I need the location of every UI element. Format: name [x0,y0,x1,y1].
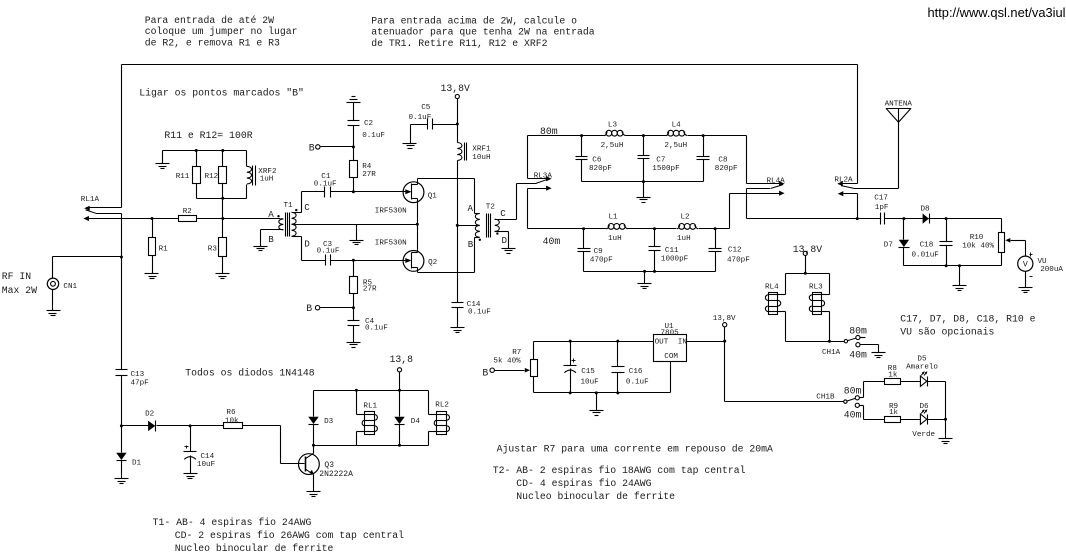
junction Q1 Q2 sources [416,223,419,226]
node 13,8V U1 [713,315,736,342]
capacitor C14 electrolytic [184,426,216,474]
capacitor C13 [116,257,150,426]
node 13.8V drain supply [441,83,471,125]
note: ajustar R7 [497,443,773,454]
svg-text:10uF: 10uF [581,379,600,387]
junction 80m ground [642,180,645,183]
ground R1 [145,274,159,279]
svg-text:D5: D5 [917,355,927,363]
wire D2 to R6 [191,425,224,427]
node B terminal 2 [306,303,353,314]
junction C14 node [189,424,192,427]
diode D7 [884,219,910,266]
wire 40m to RL4A [729,194,731,229]
capacitor C8 [697,136,739,182]
relay coil RL2 [429,391,450,446]
junction RL3 bottom [828,340,831,343]
capacitor C4 [348,318,389,343]
wire Q2 source to T2 B [418,238,475,273]
capacitor C18 [912,219,953,266]
transistor Q3 [299,446,354,492]
node B terminal 1 [309,142,354,153]
svg-text:B: B [306,303,312,314]
wire bias bottom rail [534,393,671,411]
svg-text:B: B [309,142,315,153]
junction C15 bottom [569,391,572,394]
svg-text:2,5uH: 2,5uH [601,142,624,150]
svg-text:R3: R3 [208,246,218,254]
potentiometer R7 [493,342,537,393]
svg-text:D4: D4 [411,418,421,426]
capacitor C11 [649,229,689,272]
svg-text:13,8V: 13,8V [441,83,471,94]
svg-text:C15: C15 [581,368,595,376]
relay contact RL4A [730,177,786,195]
capacitor C14b [452,301,492,328]
junction CN1 node [120,256,123,259]
wire 13.8V rail down [457,161,459,303]
svg-text:D8: D8 [921,206,931,214]
capacitor C3 [317,241,340,265]
transistor Q2 [375,239,438,271]
resistor R11 [176,151,201,199]
node RF IN label [2,271,37,296]
capacitor C7 [638,136,681,182]
resistor R2 [179,208,197,222]
svg-text:200uA: 200uA [1040,266,1063,274]
ground 80m filter [637,198,651,203]
junction C18 top [945,217,948,220]
svg-text:D1: D1 [132,460,142,468]
junction bias gnd [595,391,598,394]
svg-text:1uH: 1uH [677,235,691,243]
junction relays 13.8 [804,272,807,275]
junction C6 top [580,134,583,137]
relay coil RL3 [809,274,830,342]
wire relay top [314,390,429,392]
svg-text:L2: L2 [681,213,691,221]
note: T1 winding [153,517,405,554]
svg-text:C14: C14 [201,453,215,461]
svg-text:XRF1: XRF1 [472,146,491,154]
svg-text:R1: R1 [159,246,169,254]
junction U1 IN node [723,340,726,343]
junction B node C2 [352,145,355,148]
wire T1 D to C3 [302,237,326,261]
resistor R1 [149,219,169,274]
svg-text:Max 2W: Max 2W [2,285,37,296]
svg-text:VU são opcionais: VU são opcionais [900,327,994,338]
junction meter ground [958,264,961,267]
junction C12 top [714,227,717,230]
transformer T2 [468,203,517,250]
wire C3 to Q2 gate [331,260,406,262]
svg-text:Para entrada de até 2W: Para entrada de até 2W [145,15,274,26]
svg-text:CN1: CN1 [63,283,77,291]
junction C11 top [653,227,656,230]
wire R11 net top [163,151,247,164]
svg-text:B: B [482,368,488,379]
junction led gnd [944,418,947,421]
svg-text:Ligar os pontos marcados "B": Ligar os pontos marcados "B" [139,87,304,98]
wire meter bottom [904,266,1002,286]
svg-text:D: D [304,238,310,249]
ground R3 [216,274,230,279]
capacitor C16 [612,342,650,393]
wire 80m filter top [528,135,747,137]
svg-text:13,8: 13,8 [390,354,414,365]
note: ligar pontos B [139,87,304,98]
wire RL3A to 80m [527,136,529,179]
ground CN1 [47,311,61,316]
ground R11 net [156,164,170,169]
svg-text:CH1A: CH1A [822,349,841,357]
svg-text:RL3: RL3 [809,284,823,292]
ground meter [953,286,967,291]
node 80m label [540,126,558,137]
svg-text:1uH: 1uH [608,235,622,243]
meter VU [1018,241,1064,288]
svg-text:CH1B: CH1B [816,394,835,402]
note: optional parts [900,313,1035,337]
svg-text:CD- 2 espiras fio 26AWG com ta: CD- 2 espiras fio 26AWG com tap central [175,530,404,541]
note: jumper instructions [145,15,298,49]
inductor L3 [601,122,626,150]
resistor R9 [885,403,921,422]
svg-text:RL4: RL4 [765,284,779,292]
svg-text:R12: R12 [205,173,219,181]
svg-text:80m: 80m [844,385,862,396]
svg-text:13,8V: 13,8V [713,315,736,323]
resistor R12 [205,151,227,199]
ground C14 [184,474,198,479]
svg-text:27R: 27R [363,286,377,294]
svg-text:http://www.qsl.net/va3iul: http://www.qsl.net/va3iul [928,5,1066,20]
diode D1 [116,426,141,479]
transistor Q1 [375,182,437,216]
svg-text:Verde: Verde [912,431,935,439]
svg-text:C7: C7 [656,156,665,164]
junction C16 top [616,340,619,343]
svg-text:CD- 4 espiras fio 24AWG: CD- 4 espiras fio 24AWG [516,478,651,489]
svg-text:C9: C9 [594,248,604,256]
svg-text:R7: R7 [512,349,521,357]
ground T2 D [502,249,516,254]
svg-text:RL4A: RL4A [767,177,786,185]
capacitor C6 [576,136,613,182]
svg-text:D7: D7 [884,241,893,249]
diode D2 [122,410,191,431]
switch CH1A [822,325,879,360]
transformer T1 [261,202,311,250]
svg-text:820pF: 820pF [715,165,738,173]
wire T1 C to C1 [302,192,325,213]
ground center tap [350,241,364,245]
svg-text:470pF: 470pF [727,256,750,264]
ground T1 B [254,247,268,251]
junction C15 top [569,340,572,343]
svg-text:A: A [268,209,274,220]
wire RL4A pole to output [747,189,858,219]
svg-text:1pF: 1pF [875,204,889,212]
junction RL2A output [856,217,859,220]
wire 80m to RL4A [746,136,748,184]
svg-text:C18: C18 [920,241,934,249]
svg-text:R10: R10 [970,234,984,242]
diode D3 [308,391,333,446]
svg-text:de R2, e remova R1 e R3: de R2, e remova R1 e R3 [145,37,280,48]
wire R6 to Q3 base [281,426,305,464]
svg-text:40m: 40m [849,349,867,360]
svg-text:COM: COM [664,353,678,361]
switch CH1B [816,382,884,421]
diode D4 [394,391,420,446]
svg-text:RF IN: RF IN [2,271,32,282]
svg-text:40m: 40m [844,409,862,420]
relay coil RL4 [765,274,786,342]
svg-text:C6: C6 [592,156,602,164]
svg-text:C8: C8 [718,156,728,164]
wire coils to CH1A [786,341,845,343]
ground CH1A [872,353,886,358]
svg-text:0.1uF: 0.1uF [362,132,385,140]
wire relay coils top [786,273,830,275]
note: url [928,5,1066,20]
ground bias [590,411,604,416]
svg-text:R2: R2 [183,208,193,216]
relay contact RL3A [517,173,553,220]
wire T2 center tap [458,225,480,227]
svg-text:470pF: 470pF [590,257,613,265]
wire Q1 source [417,199,419,225]
svg-text:C13: C13 [131,371,145,379]
svg-text:0.1uF: 0.1uF [626,379,649,387]
junction D7 node [902,217,905,220]
wire U1 COM [670,362,672,393]
wire C2 to R4 [353,126,355,161]
potentiometer R10 [962,233,1025,266]
svg-text:Nucleo binocular de ferrite: Nucleo binocular de ferrite [516,491,675,502]
svg-text:coloque um jumper no lugar: coloque um jumper no lugar [145,26,298,37]
ground D1 [115,479,129,484]
svg-text:Q3: Q3 [324,461,334,470]
svg-text:T2: T2 [486,203,496,211]
svg-text:Ajustar R7 para uma corrente e: Ajustar R7 para uma corrente em repouso … [497,443,773,454]
junction C13 bottom [120,424,123,427]
svg-text:Nucleo binocular de ferrite: Nucleo binocular de ferrite [175,543,334,554]
svg-text:RL1: RL1 [363,402,377,410]
note: attenuator instructions [371,15,595,49]
node B terminal 3 [482,368,494,379]
wire RL3A to 40m [527,189,529,229]
junction gate Q1 node [352,190,355,193]
svg-text:T2- AB- 2 espiras fio 18AWG co: T2- AB- 2 espiras fio 18AWG com tap cent… [493,465,746,476]
junction C7 top [642,134,645,137]
inductor L4 [664,122,687,150]
node 13,8 relay supply [390,354,414,390]
svg-text:820pF: 820pF [589,165,612,173]
svg-text:RL2: RL2 [435,402,449,410]
svg-text:C12: C12 [728,247,742,255]
wire to CH1B [725,342,844,402]
ground C5 [403,144,417,149]
note: T2 winding [493,465,746,502]
wire RL2A throw2 down [857,194,859,219]
wire T1 center tap [296,225,418,241]
svg-text:T1: T1 [284,202,294,210]
node 40m label [543,236,561,247]
junction XRF1 top [456,123,459,126]
junction gate Q2 node [352,259,355,262]
capacitor C15 electrolytic [564,342,600,393]
ground leds [939,439,953,444]
wire Q1 drain to T2 A [418,179,475,214]
svg-text:C: C [304,202,310,213]
junction R12 bottom [221,197,224,200]
svg-text:0.1uF: 0.1uF [365,324,388,332]
svg-text:10k: 10k [225,418,239,426]
inductor XRF1 [457,125,491,163]
inductor L1 [607,213,628,243]
svg-text:Amarelo: Amarelo [906,364,938,372]
note: todos os diodos [185,368,314,379]
svg-text:Q2: Q2 [428,259,438,267]
wire D6 to gnd [928,420,946,439]
junction C11 bottom [653,270,656,273]
junction C18 bottom [945,264,948,267]
capacitor C1 [314,173,337,198]
svg-text:0.1uF: 0.1uF [468,309,491,317]
inductor XRF2 [247,151,277,199]
wire 80m filter bottom [582,182,704,198]
svg-text:5k 40%: 5k 40% [493,358,521,366]
svg-text:40m: 40m [543,236,561,247]
capacitor C5 [409,104,458,144]
svg-text:C2: C2 [364,120,374,128]
resistor R4 [350,161,377,192]
svg-text:R4: R4 [362,163,372,171]
svg-text:R6: R6 [226,409,236,417]
junction B node R5 [352,306,355,309]
wire C1 to Q1 gate [331,191,406,193]
relay contact RL1A [81,196,122,221]
relay coil RL1 [357,391,378,446]
svg-text:0.1uF: 0.1uF [317,247,340,255]
svg-text:0.1uF: 0.1uF [409,114,432,122]
svg-text:1k: 1k [888,372,898,380]
resistor R5 [350,261,378,321]
resistor R8 [885,365,921,384]
svg-text:B: B [468,239,474,250]
junction C9 top [582,227,585,230]
wire 40m filter bottom [584,272,716,284]
wire R11 net bottom [197,199,247,219]
svg-text:27R: 27R [362,171,376,179]
svg-text:C: C [500,208,506,219]
svg-text:T1- AB- 4 espiras fio 24AWG: T1- AB- 4 espiras fio 24AWG [153,517,312,528]
svg-text:2,5uH: 2,5uH [664,142,687,150]
svg-text:2N2222A: 2N2222A [319,470,353,479]
ground C14b [451,328,465,333]
junction D4 bottom [398,444,401,447]
junction 40m ground [643,270,646,273]
wire top bypass rail [122,65,858,208]
svg-text:C16: C16 [629,368,643,376]
junction R3 node [221,217,224,220]
inductor L2 [677,213,698,243]
svg-text:Todos os diodos 1N4148: Todos os diodos 1N4148 [185,368,314,379]
svg-text:IRF530N: IRF530N [375,239,407,247]
svg-text:RL2A: RL2A [834,176,853,184]
ground C4 [347,343,361,348]
svg-text:RL1A: RL1A [81,196,100,204]
svg-text:R11 e R12= 100R: R11 e R12= 100R [164,130,252,141]
capacitor C2 [348,103,386,141]
svg-text:D: D [502,235,508,246]
led D5 [906,355,938,386]
svg-text:R11: R11 [176,173,190,181]
svg-text:B: B [268,234,274,245]
ground Q3 [307,492,321,497]
junction C8 top [702,134,705,137]
svg-text:1000pF: 1000pF [661,256,689,264]
junction R11 top [195,149,198,152]
svg-text:C17: C17 [874,194,888,202]
svg-text:C11: C11 [665,247,679,255]
svg-text:47pF: 47pF [131,380,150,388]
resistor R3 [208,219,227,274]
wire C17 to D8 [885,218,923,220]
svg-text:A: A [468,203,474,214]
svg-text:10uF: 10uF [197,461,216,469]
svg-text:10k 40%: 10k 40% [962,243,994,251]
diode D8 [921,206,931,224]
ground above C2 [347,97,361,103]
svg-text:10uH: 10uH [472,154,490,162]
wire main RF line [86,218,281,220]
junction Q3 collector [312,444,315,447]
capacitor C9 [578,229,614,272]
wire D5 to gnd rail [928,382,946,420]
junction RL1 top [355,389,358,392]
svg-text:Q1: Q1 [428,193,438,201]
capacitor C17 [874,194,889,224]
wire RL1A pole down to CN1 node [121,214,123,257]
led D6 [912,403,935,439]
junction C16 bottom [616,391,619,394]
svg-text:IN: IN [678,339,687,347]
svg-text:C5: C5 [421,104,431,112]
svg-text:ANTENA: ANTENA [885,100,913,108]
svg-text:L1: L1 [609,213,619,221]
junction R1 node [151,217,154,220]
wire output to C17 [858,218,881,220]
connector CN1 [47,257,121,311]
regulator U1 7805 [654,323,687,361]
svg-text:RL3A: RL3A [534,173,553,181]
svg-text:IRF530N: IRF530N [375,208,407,216]
svg-text:0.1uF: 0.1uF [314,180,337,188]
junction T2 center tap [456,224,459,227]
svg-text:1uH: 1uH [260,176,274,184]
ground VU [1019,288,1033,293]
wire relay bottom [314,445,429,447]
capacitor C12 [709,229,751,272]
wire bias top rail [534,341,654,343]
svg-text:Para entrada acima de 2W, calc: Para entrada acima de 2W, calcule o [371,15,577,26]
junction R12 top [221,149,224,152]
wire U1 IN [687,341,725,343]
